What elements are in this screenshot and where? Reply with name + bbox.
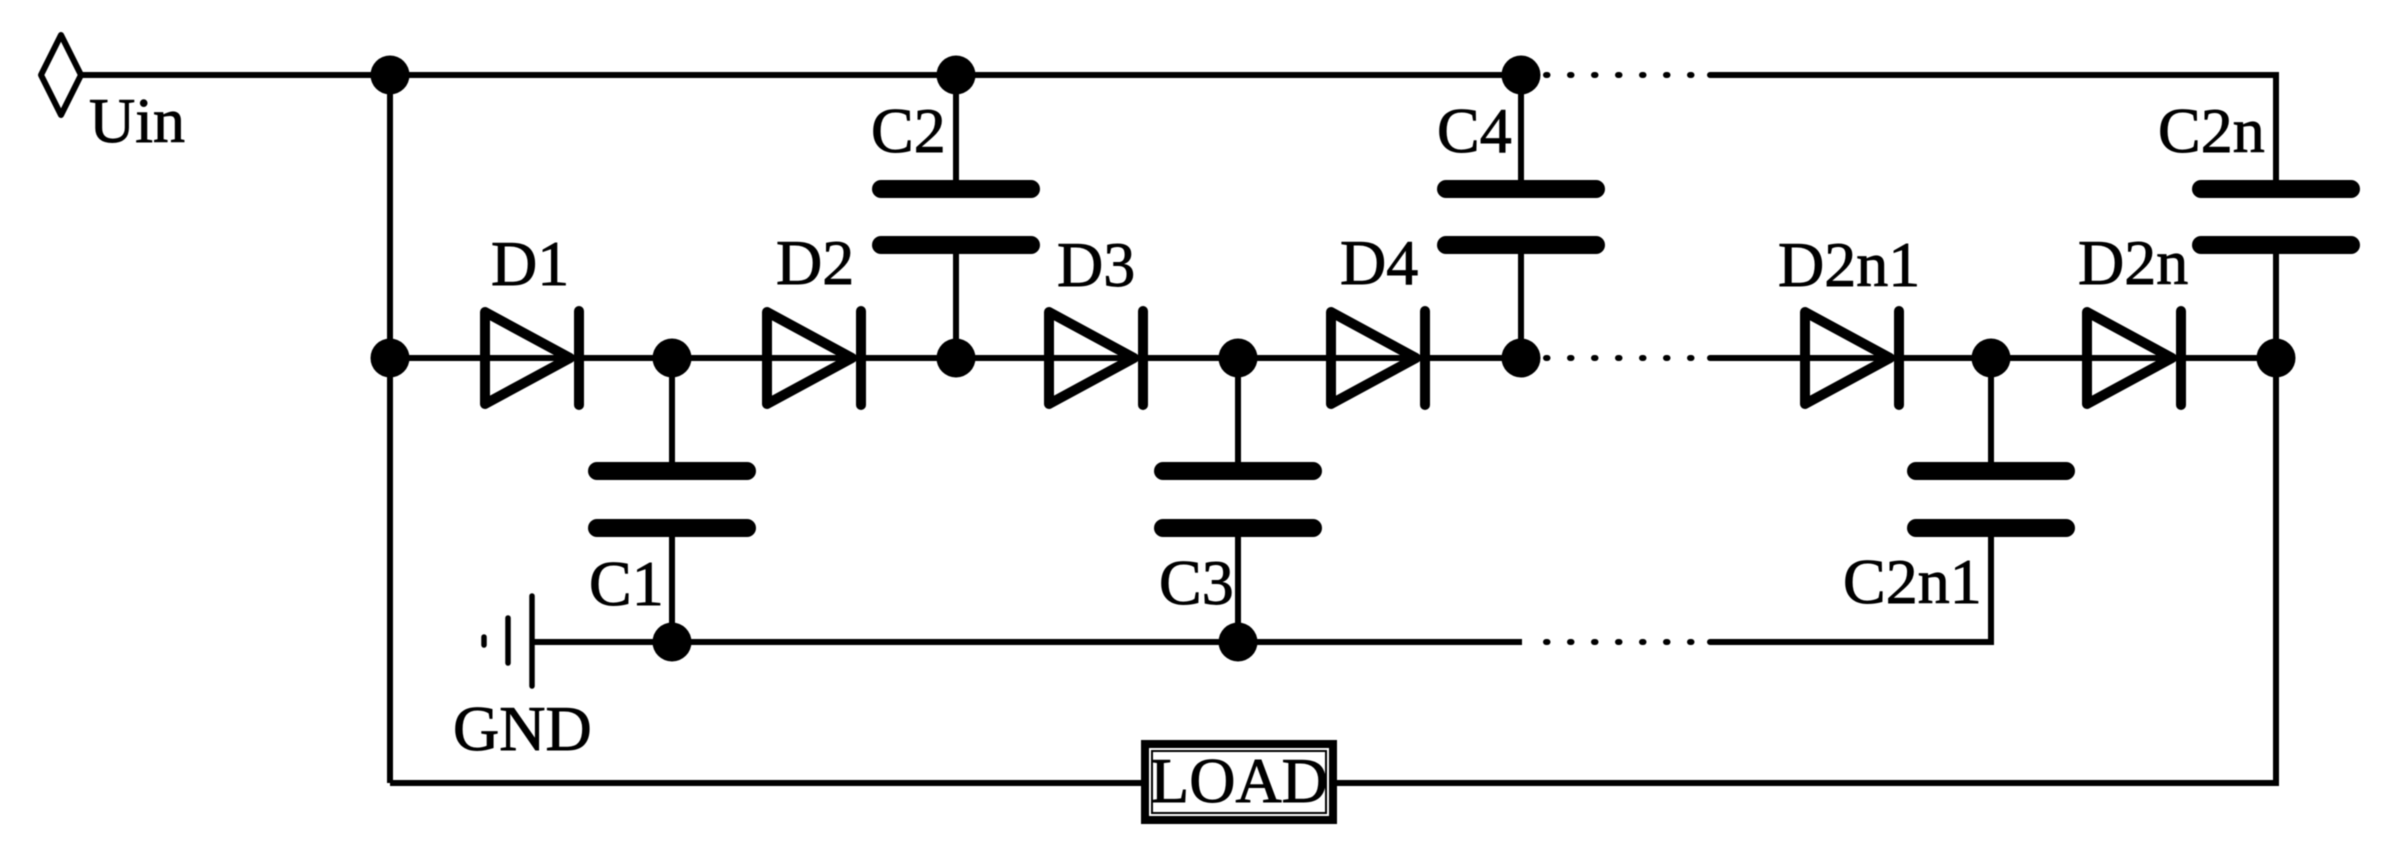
wire ground row right part up to C2n1	[1710, 537, 1991, 642]
wire middle row right part	[1710, 355, 2276, 361]
wire top from Uin to C4 node	[81, 72, 1521, 78]
svg-text:D3: D3	[1057, 229, 1135, 300]
svg-text:C1: C1	[589, 548, 664, 619]
svg-text:D2: D2	[776, 227, 854, 298]
svg-text:D1: D1	[491, 228, 569, 299]
capacitor C2	[872, 75, 1040, 358]
svg-text:C3: C3	[1159, 547, 1234, 618]
svg-text:C4: C4	[1437, 95, 1512, 166]
diode D1	[485, 311, 579, 405]
capacitor C4	[1437, 75, 1605, 358]
svg-text:LOAD: LOAD	[1150, 745, 1328, 816]
wire top right to C2n	[1710, 75, 2276, 180]
svg-text:C2: C2	[871, 95, 946, 166]
svg-text:Uin: Uin	[89, 85, 185, 156]
wire ground row left part	[532, 639, 1522, 645]
diode D4	[1331, 311, 1425, 405]
wire bottom row left of LOAD	[390, 780, 1145, 786]
node middle C4	[1502, 339, 1541, 378]
node top C2	[937, 56, 976, 95]
svg-text:GND: GND	[453, 693, 592, 764]
wire top dotted segment	[1546, 72, 1694, 78]
diode D3	[1049, 311, 1143, 405]
node middle C3	[1219, 339, 1258, 378]
capacitor C3	[1154, 358, 1322, 642]
wire left vertical from top to bottom	[387, 75, 393, 783]
node middle C2n1	[1972, 339, 2011, 378]
capacitor C2n1	[1907, 358, 2075, 642]
wire ground row dotted segment	[1546, 639, 1694, 645]
svg-text:D2n1: D2n1	[1778, 229, 1920, 300]
wire middle row left part	[390, 355, 1521, 361]
wire middle dotted segment	[1546, 355, 1694, 361]
node middle C1	[653, 339, 692, 378]
wire right vertical	[2273, 358, 2279, 786]
diode D2n1	[1805, 311, 1899, 405]
svg-text:D4: D4	[1340, 227, 1418, 298]
capacitor C2n	[2192, 180, 2360, 358]
node ground C3	[1219, 623, 1258, 662]
node middle C2	[937, 339, 976, 378]
input terminal Uin diamond	[41, 35, 81, 115]
load box	[1145, 744, 1333, 820]
diode D2n	[2087, 311, 2181, 405]
svg-text:D2n: D2n	[2078, 227, 2188, 298]
capacitor C1	[588, 358, 756, 642]
node top-left	[371, 56, 410, 95]
diode D2	[767, 311, 861, 405]
svg-text:C2n1: C2n1	[1843, 546, 1982, 617]
node ground C1	[653, 623, 692, 662]
node middle-left	[371, 339, 410, 378]
svg-text:C2n: C2n	[2158, 95, 2265, 166]
ground symbol	[484, 596, 532, 686]
wire bottom row right of LOAD	[1333, 780, 2276, 786]
node middle C2n	[2257, 339, 2296, 378]
node top C4	[1502, 56, 1541, 95]
